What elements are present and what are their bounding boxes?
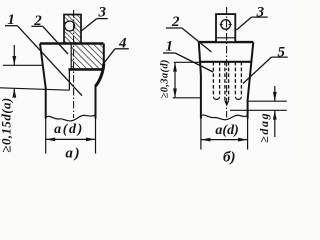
svg-text:4: 4 bbox=[118, 36, 127, 52]
svg-text:3: 3 bbox=[256, 4, 265, 20]
svg-text:≥dag: ≥dag bbox=[257, 112, 271, 143]
svg-text:2: 2 bbox=[171, 14, 180, 30]
svg-text:б): б) bbox=[223, 150, 235, 166]
svg-text:≥0,15d(a): ≥0,15d(a) bbox=[0, 97, 14, 152]
svg-text:5: 5 bbox=[278, 44, 286, 60]
svg-text:a(d): a(d) bbox=[54, 122, 84, 137]
svg-text:a(d): a(d) bbox=[215, 123, 238, 138]
svg-text:≥0,3a(d): ≥0,3a(d) bbox=[159, 59, 170, 98]
svg-text:1: 1 bbox=[7, 12, 15, 28]
svg-text:3: 3 bbox=[97, 5, 106, 21]
svg-text:1: 1 bbox=[166, 39, 174, 55]
svg-text:2: 2 bbox=[33, 13, 42, 29]
svg-text:а): а) bbox=[65, 146, 81, 162]
